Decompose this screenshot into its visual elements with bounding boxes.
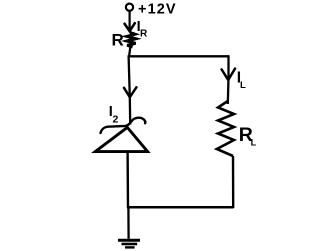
current arrow IZ [124, 87, 136, 97]
zener diode triangle [95, 127, 147, 151]
resistor R [127, 33, 136, 47]
label +12V [138, 1, 177, 17]
resistor RL [217, 101, 234, 156]
wire [127, 207, 130, 239]
zener diode cathode bar [101, 118, 146, 133]
label I2 [109, 104, 119, 125]
terminal +12V [126, 4, 133, 11]
label R [112, 31, 124, 50]
svg-text:R: R [140, 29, 148, 40]
svg-text:L: L [251, 138, 257, 148]
wire [129, 47, 130, 58]
wire [127, 206, 234, 209]
wire [126, 152, 129, 208]
wire [227, 55, 230, 104]
svg-text:2: 2 [113, 114, 119, 126]
wire [128, 55, 229, 57]
label IL [237, 70, 246, 92]
label RL [239, 124, 257, 148]
ground [118, 240, 140, 247]
svg-text:+12V: +12V [138, 1, 177, 17]
svg-text:R: R [112, 31, 124, 50]
current arrow IR [125, 23, 135, 31]
svg-text:L: L [240, 80, 246, 91]
wire [129, 11, 131, 32]
label IR [137, 19, 148, 40]
wire [232, 156, 235, 208]
current arrow IL [222, 69, 235, 80]
wire [129, 56, 131, 125]
